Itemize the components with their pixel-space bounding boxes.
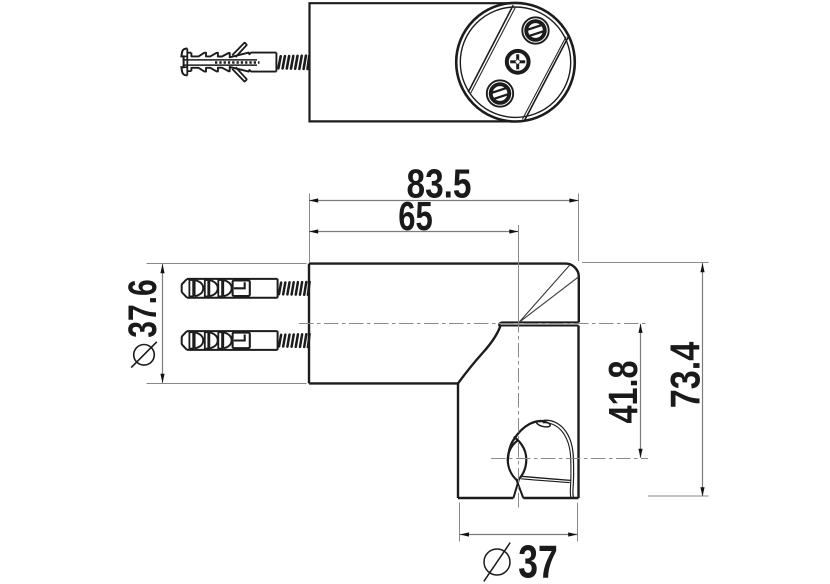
top view: end-cap inner circle	[460, 7, 570, 117]
top view: cylinder body rectangle	[310, 3, 519, 121]
top view: end-cap outer circle	[456, 3, 575, 122]
dim diam37: extension lines	[459, 503, 461, 542]
body: vertical part left edge	[457, 383, 459, 498]
screw thread of P1	[279, 282, 310, 295]
centerline: vertical axis of lower part	[518, 318, 520, 511]
cradle: front rim line lower	[521, 479, 570, 483]
cradle: neck right line	[517, 480, 524, 498]
cradle: lens right arc	[514, 437, 527, 481]
plug wing upper	[232, 43, 247, 57]
dim 41.8: dimension line	[640, 324, 642, 458]
wall plug P2 (front view, lower)	[182, 331, 278, 350]
screw visible in slot (dotted)	[215, 61, 260, 64]
diameter symbol for 37.6	[131, 342, 157, 368]
cradle: front rim line upper	[520, 476, 571, 480]
body: bottom edge right of notch	[523, 497, 578, 499]
arrowheads	[309, 198, 318, 202]
cradle: dome back rim (thick)	[508, 421, 546, 461]
dim 73.4: extension lines	[582, 262, 709, 264]
dim diam37: dimension line	[460, 534, 578, 536]
centerline: horizontal axis of arm	[299, 323, 648, 325]
dim 65: dimension line	[309, 231, 519, 233]
body: bottom edge left of notch	[458, 497, 513, 499]
dim 37.6: dimension line	[162, 264, 164, 383]
screw head S1 (slotted, upper right)	[522, 17, 548, 43]
dim 83.5: extension lines	[309, 194, 311, 263]
plug teeth top	[191, 53, 276, 58]
svg-text:65: 65	[398, 193, 433, 239]
plug expansion slot walls	[183, 59, 258, 61]
screw head S3 (Phillips, centre)	[507, 51, 529, 73]
cradle: front rim outer thin line	[544, 420, 574, 498]
svg-text:73.4: 73.4	[662, 341, 709, 408]
cradle: neck left line	[513, 480, 518, 498]
screw head S2 (slotted, lower left)	[487, 80, 513, 106]
screw thread of P2	[279, 334, 310, 347]
svg-text:37: 37	[518, 535, 558, 584]
centerline: cradle horizontal axis	[491, 458, 648, 460]
body: S-curve transition	[458, 326, 500, 383]
plug teeth bottom	[191, 67, 276, 72]
dim 37.6: extension lines	[147, 263, 307, 265]
diameter symbol for 37	[484, 543, 510, 582]
body: bottom edge of horizontal arm	[309, 382, 458, 384]
cradle: lens left arc	[508, 441, 518, 481]
dim 65: right extension line	[518, 225, 520, 319]
dim 83.5: dimension line	[309, 200, 579, 202]
body: vertical part right edge	[577, 326, 579, 499]
body: corner fan line 2	[519, 277, 579, 323]
body: flange top line	[502, 321, 579, 323]
body: top edge, rounded corner and upper right edge	[309, 264, 579, 323]
cradle: top notch ellipse	[536, 419, 551, 428]
svg-text:37.6: 37.6	[121, 279, 165, 338]
top view: chamfer chord lower-right companion line	[522, 37, 566, 120]
body: corner fan line 1	[519, 265, 570, 323]
cradle: front rim inner thin line	[543, 423, 571, 498]
top view: chamfer chord lower-right	[525, 37, 569, 121]
body: left edge	[308, 264, 310, 384]
body: flange bottom line with left cap	[499, 322, 578, 325]
svg-text:41.8: 41.8	[600, 361, 646, 424]
plug wing lower	[232, 67, 247, 81]
plug shank end	[275, 53, 277, 72]
screw thread (top view)	[278, 56, 309, 69]
dim 73.4: dimension line	[702, 263, 704, 496]
top view: chamfer chord upper-left companion line	[471, 8, 516, 94]
plug cap	[181, 49, 187, 76]
wall plug P1 (front view, upper)	[182, 279, 278, 298]
top view: chamfer chord upper-left	[468, 5, 513, 92]
wall plug (top view, with wings)	[181, 43, 276, 82]
